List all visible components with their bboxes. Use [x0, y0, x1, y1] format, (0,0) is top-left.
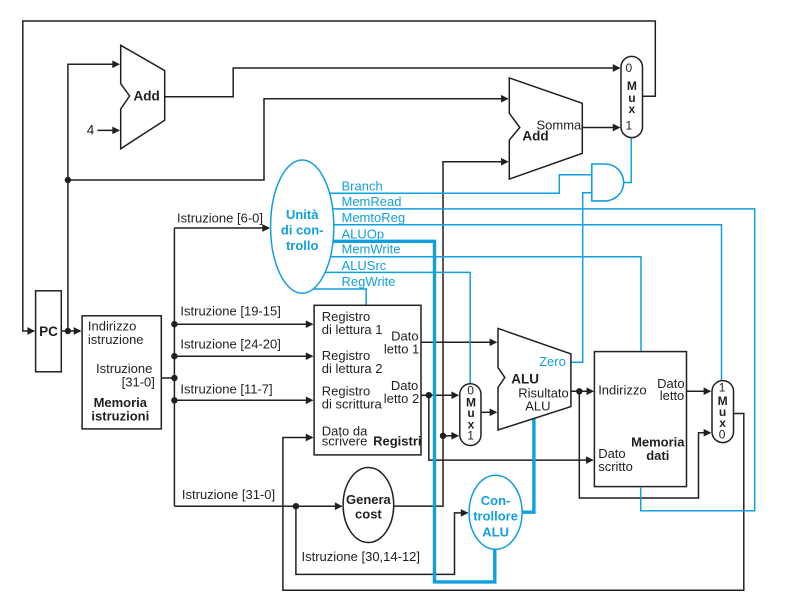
svg-text:1: 1: [625, 118, 632, 132]
instruction field labels: [177, 210, 420, 564]
adder Somma Add (branch target): [509, 78, 582, 179]
svg-text:Branch: Branch: [342, 179, 383, 194]
svg-text:Indirizzo: Indirizzo: [598, 383, 646, 398]
ALU: [498, 328, 571, 430]
svg-text:ALU: ALU: [482, 524, 509, 539]
svg-text:ALU: ALU: [525, 398, 550, 413]
wire Istruzione [6-0] to control unit: [174, 227, 269, 229]
wire immediate branch to mid mux input 1: [443, 435, 458, 437]
wire ALU result to data memory address: [571, 390, 593, 392]
wire instruction bus from instruction memory: [161, 228, 174, 506]
svg-text:1: 1: [719, 381, 726, 395]
memory block Memoria dati: [594, 352, 686, 487]
svg-text:MemRead: MemRead: [342, 194, 402, 209]
svg-text:x: x: [629, 102, 636, 116]
svg-text:trollore: trollore: [473, 509, 518, 524]
svg-text:cost: cost: [355, 507, 382, 522]
wire Istruzione [11-7] to write register: [174, 399, 312, 401]
svg-text:ALUOp: ALUOp: [342, 226, 385, 241]
svg-text:di con-: di con-: [281, 223, 324, 238]
svg-text:di lettura 1: di lettura 1: [322, 322, 383, 337]
wire ALUOp control bus to ALU control: [302, 241, 495, 582]
svg-text:scritto: scritto: [598, 459, 633, 474]
wire constant 4 into Add bottom input: [98, 129, 119, 131]
wire mid mux output to ALU bottom input: [481, 411, 496, 413]
junction immediate branch: [440, 433, 446, 439]
svg-text:Istruzione [6-0]: Istruzione [6-0]: [177, 210, 263, 225]
svg-text:Istruzione [11-7]: Istruzione [11-7]: [180, 382, 272, 397]
wire Somma Add output to top mux input 1: [582, 127, 619, 129]
AND gate (branch and zero): [592, 164, 624, 201]
register file Registri: [314, 305, 421, 455]
svg-text:Add: Add: [522, 128, 548, 143]
wire Istruzione [31-0] to immediate generator: [174, 505, 341, 507]
svg-text:di scrittura: di scrittura: [322, 397, 383, 412]
wire Zero flag to AND gate: [571, 193, 591, 362]
wire data memory read data to right mux input 1: [687, 390, 711, 392]
svg-text:di lettura 2: di lettura 2: [322, 361, 383, 376]
ALU control ellipse Controllore ALU: [469, 475, 522, 549]
svg-text:istruzioni: istruzioni: [91, 409, 149, 424]
junction PC output: [65, 328, 71, 334]
wire Istruzione [30,14-12] to ALU control: [296, 506, 468, 574]
svg-text:0: 0: [719, 427, 726, 441]
adder Add (PC+4): [121, 45, 165, 149]
svg-text:Istruzione [30,14-12]: Istruzione [30,14-12]: [302, 549, 421, 564]
wire PC to Somma Add top input: [68, 99, 508, 180]
junction PC branch line: [65, 177, 71, 183]
mux mid (ALU source): [460, 384, 481, 446]
svg-text:MemtoReg: MemtoReg: [342, 210, 406, 225]
mux top right (PC source): [621, 56, 643, 137]
wire MemRead control to data memory bottom: [302, 209, 755, 511]
svg-text:Unità: Unità: [286, 207, 319, 222]
wire writeback from right mux to register write data: [283, 414, 744, 591]
wire immediate to Somma Add bottom input: [394, 162, 508, 506]
wire MemWrite control to data memory top: [302, 257, 641, 353]
junction bus 19-15: [171, 321, 177, 327]
wire ALU result bypass to right mux input 0: [579, 391, 710, 498]
register PC: [36, 291, 62, 372]
svg-text:PC: PC: [39, 324, 58, 339]
svg-text:scrivere: scrivere: [322, 433, 368, 448]
svg-text:[31-0]: [31-0]: [122, 375, 155, 390]
wire PC feedback loop: top mux output to PC input: [23, 21, 656, 331]
junction bus 31-0: [293, 503, 299, 509]
wire ALU control output to ALU: [522, 418, 534, 512]
memory block Memoria istruzioni: [82, 316, 161, 429]
svg-text:Istruzione [31-0]: Istruzione [31-0]: [182, 487, 275, 502]
svg-text:letto 1: letto 1: [384, 341, 419, 356]
svg-text:ALUSrc: ALUSrc: [342, 258, 387, 273]
svg-text:MemWrite: MemWrite: [342, 242, 401, 257]
junction bus main: [171, 375, 177, 381]
svg-text:Genera: Genera: [346, 492, 392, 507]
wire MemtoReg control to right mux select: [302, 225, 722, 381]
svg-text:letto 2: letto 2: [384, 391, 419, 406]
svg-text:istruzione: istruzione: [88, 332, 144, 347]
wire read data 2 to mid mux input 0: [421, 394, 458, 396]
svg-text:trollo: trollo: [286, 238, 319, 253]
wire read data 1 to ALU top input: [421, 341, 496, 343]
svg-text:ALU: ALU: [511, 372, 539, 387]
svg-text:Con-: Con-: [481, 493, 511, 508]
svg-text:1: 1: [467, 429, 474, 443]
svg-text:Registri: Registri: [373, 434, 421, 449]
control signal labels: [342, 179, 406, 289]
svg-text:dati: dati: [646, 448, 669, 463]
control unit ellipse Unita di controllo: [271, 160, 334, 293]
wire PC output to instruction memory: [61, 330, 80, 332]
wire Branch control to AND gate: [302, 175, 591, 194]
wire AND gate output to top mux select: [624, 138, 632, 183]
junction bus 11-7: [171, 397, 177, 403]
svg-text:4: 4: [87, 123, 95, 138]
svg-text:Istruzione [19-15]: Istruzione [19-15]: [180, 304, 280, 319]
svg-text:RegWrite: RegWrite: [342, 274, 396, 289]
wire Istruzione [19-15] to read register 1: [174, 323, 312, 325]
wire RegWrite control to registers: [302, 289, 366, 305]
wire Istruzione [24-20] to read register 2: [174, 355, 312, 357]
mux right (writeback source): [712, 381, 734, 443]
svg-text:Istruzione [24-20]: Istruzione [24-20]: [180, 336, 280, 351]
junction read data 2: [426, 392, 432, 398]
immediate generator Genera cost: [343, 468, 394, 543]
wire Add output to top mux input 0: [165, 68, 620, 97]
junction bus 24-20: [171, 353, 177, 359]
wire ALUSrc control to mid mux select: [302, 272, 470, 383]
svg-text:Zero: Zero: [539, 354, 566, 369]
junction ALU result: [576, 388, 582, 394]
svg-text:0: 0: [625, 61, 632, 75]
svg-text:letto: letto: [660, 388, 685, 403]
wire PC up to Add top input: [68, 64, 119, 331]
svg-text:Add: Add: [134, 89, 160, 104]
wire read data 2 down to data memory write data: [429, 395, 593, 460]
